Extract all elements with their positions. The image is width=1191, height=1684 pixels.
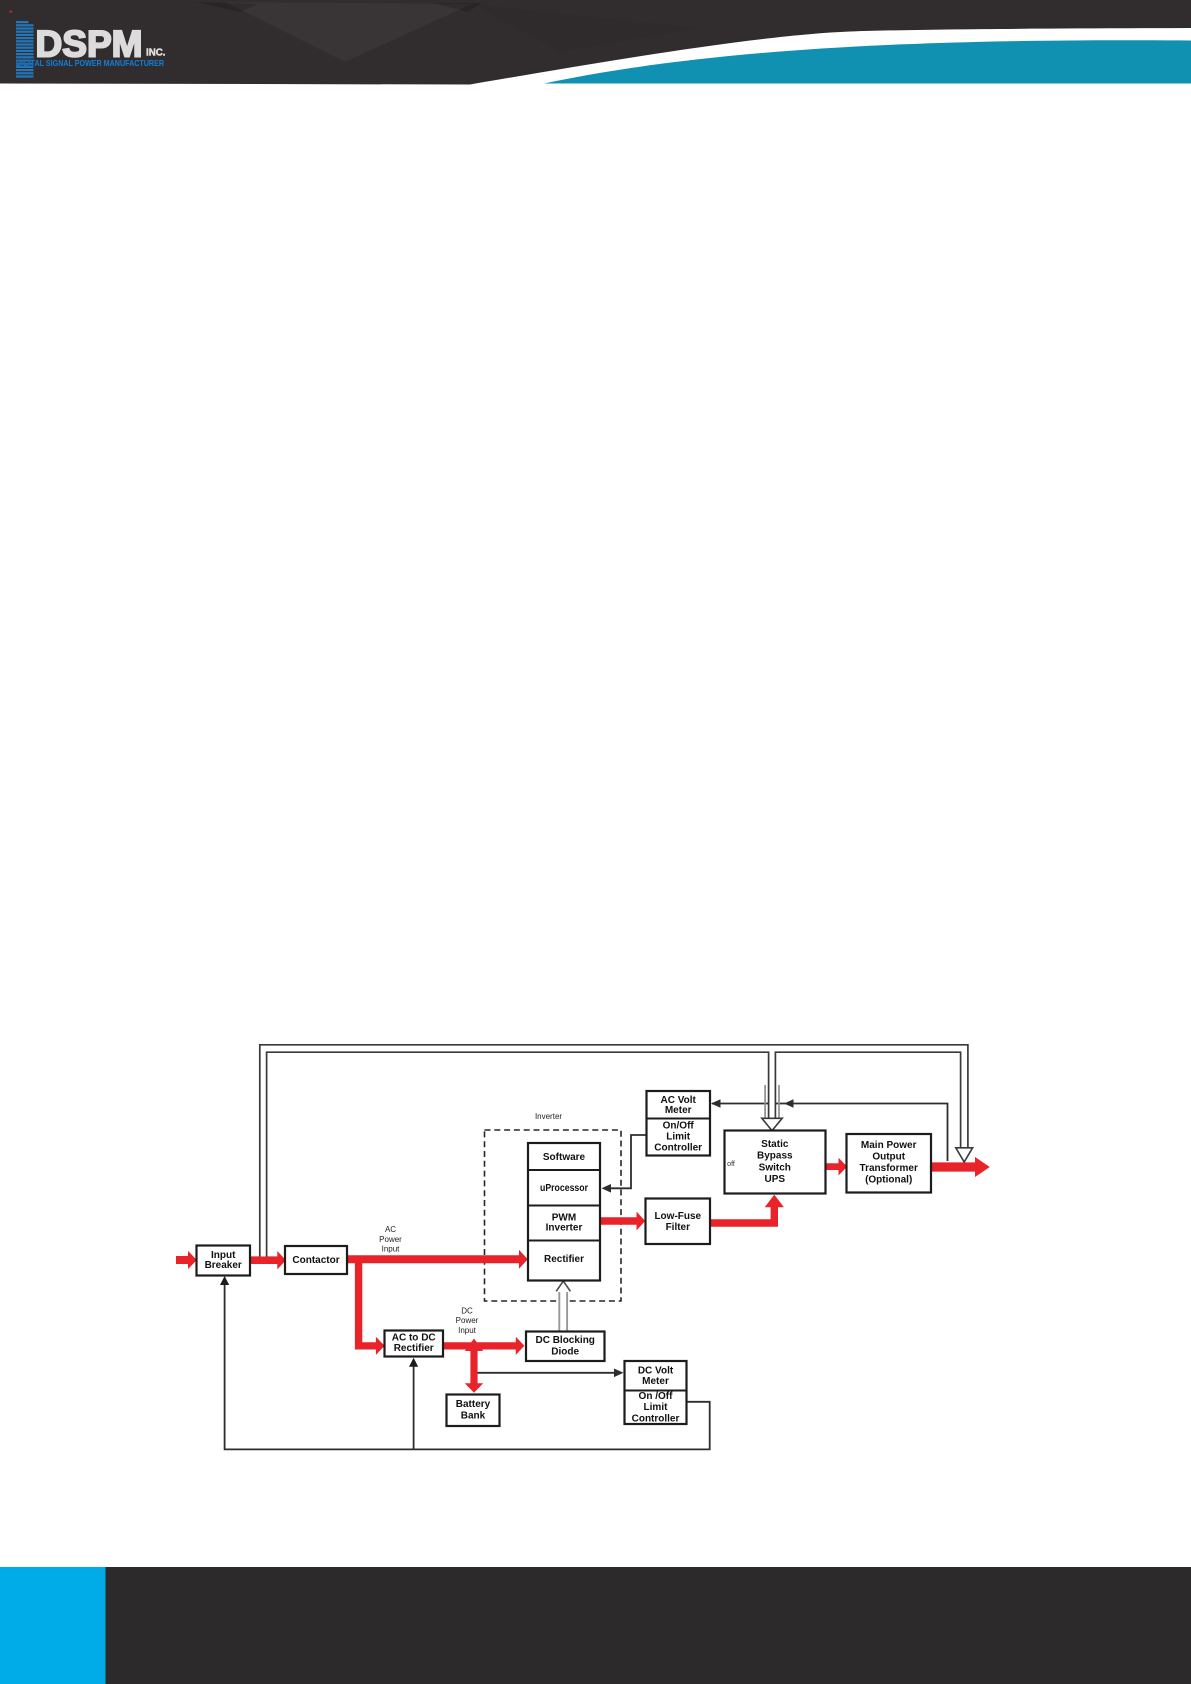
label DC Power Input — [456, 1307, 479, 1335]
svg-text:On /Off: On /Off — [639, 1391, 674, 1402]
svg-text:Meter: Meter — [642, 1376, 669, 1387]
svg-text:Power: Power — [379, 1235, 402, 1244]
svg-text:INC.: INC. — [146, 47, 166, 59]
red battery double arrow — [465, 1339, 483, 1393]
svg-text:DC Volt: DC Volt — [638, 1365, 674, 1376]
bypass band inner edge right — [775, 1052, 960, 1149]
svg-text:Transformer: Transformer — [860, 1163, 918, 1174]
red output arrow — [931, 1157, 990, 1177]
box Input Breaker — [197, 1246, 251, 1276]
svg-text:Breaker: Breaker — [205, 1260, 242, 1271]
svg-text:Software: Software — [543, 1152, 586, 1163]
box Static Bypass Switch UPS — [725, 1131, 826, 1194]
svg-text:Bank: Bank — [461, 1410, 486, 1421]
svg-text:Diode: Diode — [551, 1346, 579, 1357]
svg-text:off: off — [727, 1161, 735, 1168]
svg-text:Output: Output — [872, 1152, 905, 1163]
bypass band outer edge — [260, 1045, 968, 1257]
svg-text:Rectifier: Rectifier — [544, 1254, 584, 1265]
svg-text:On/Off: On/Off — [663, 1121, 695, 1132]
red AC main line to Rectifier — [347, 1250, 528, 1269]
svg-text:Static: Static — [761, 1139, 789, 1150]
footer blue square — [0, 1567, 106, 1684]
box Battery Bank — [447, 1395, 500, 1427]
svg-text:Filter: Filter — [666, 1222, 691, 1233]
box Main Power Output Transformer — [847, 1134, 932, 1193]
svg-text:Main Power: Main Power — [861, 1140, 917, 1151]
header blue swoosh — [544, 40, 1191, 83]
svg-text:Low-Fuse: Low-Fuse — [654, 1211, 701, 1222]
wire output sense to AC Volt Meter — [712, 1104, 948, 1162]
svg-text:(Optional): (Optional) — [865, 1174, 912, 1185]
svg-text:DIGITAL SIGNAL POWER MANUFACTU: DIGITAL SIGNAL POWER MANUFACTURER — [16, 59, 164, 68]
svg-text:Battery: Battery — [456, 1399, 491, 1410]
arrowhead up into Input Breaker — [220, 1276, 229, 1285]
box AC Volt Meter / On-Off Limit Controller — [647, 1091, 711, 1156]
svg-text:DC: DC — [461, 1307, 473, 1316]
bypass band inner edge left — [267, 1052, 769, 1256]
svg-text:Switch: Switch — [759, 1162, 791, 1173]
svg-text:Limit: Limit — [666, 1132, 691, 1143]
hollow arrow shaft edges — [559, 1292, 567, 1331]
svg-text:Meter: Meter — [665, 1105, 692, 1116]
red branch down to AC to DC Rectifier — [355, 1256, 385, 1355]
red path Low-Fuse Filter up into Static Bypass — [710, 1195, 784, 1227]
wire On/Off controller to uProcessor — [611, 1135, 647, 1188]
wire DC limit controller feedback loop — [225, 1284, 710, 1449]
svg-text:Power: Power — [456, 1316, 479, 1325]
arrowhead into AC Volt Meter — [711, 1099, 721, 1108]
box DC Blocking Diode — [526, 1332, 605, 1362]
svg-text:Controller: Controller — [654, 1143, 702, 1154]
hollow arrow diode to Rectifier : white core — [560, 1290, 566, 1331]
logo red speck — [10, 11, 13, 13]
svg-text:Bypass: Bypass — [757, 1151, 793, 1162]
red arrow Static Bypass to Main Transformer — [826, 1158, 848, 1176]
box DC Volt Meter / On-Off Limit Controller — [625, 1361, 687, 1424]
footer dark bar — [106, 1567, 1191, 1684]
svg-text:Rectifier: Rectifier — [394, 1343, 434, 1354]
box Low-Fuse Filter — [646, 1199, 711, 1245]
hollow arrowhead into Static Bypass — [762, 1118, 782, 1130]
red input arrow — [176, 1251, 197, 1269]
arrowhead into DC Volt Meter — [614, 1369, 624, 1378]
wire feedback branch to AC to DC Rectifier — [413, 1366, 415, 1449]
bypass hollow band interior — [260, 1045, 968, 1257]
label AC Power Input — [379, 1225, 402, 1253]
wire battery bus to DC Volt Meter — [477, 1372, 615, 1374]
bypass branch gray shaft — [765, 1085, 779, 1119]
hollow arrowhead into Rectifier — [556, 1281, 570, 1291]
box inverter stack — [528, 1143, 600, 1281]
svg-text:UPS: UPS — [765, 1174, 786, 1185]
svg-text:Contactor: Contactor — [292, 1255, 339, 1266]
inverter dashed enclosure — [485, 1130, 622, 1301]
svg-text:DC Blocking: DC Blocking — [535, 1335, 594, 1346]
red arrow breaker to contactor — [250, 1251, 286, 1269]
red arrow PWM to Low-Fuse Filter — [600, 1212, 645, 1231]
red arrow rectifier to DC Blocking Diode — [443, 1337, 524, 1355]
svg-text:Input: Input — [382, 1245, 401, 1254]
svg-text:Inverter: Inverter — [546, 1223, 583, 1234]
arrowhead into bypass band — [784, 1099, 794, 1108]
svg-text:Inverter: Inverter — [535, 1112, 562, 1121]
svg-text:Limit: Limit — [644, 1402, 669, 1413]
hollow arrowhead into output line — [956, 1148, 973, 1162]
svg-text:Controller: Controller — [632, 1413, 680, 1424]
box AC to DC Rectifier — [385, 1331, 444, 1357]
arrowhead up into AC to DC Rectifier — [409, 1358, 418, 1367]
svg-text:AC to DC: AC to DC — [392, 1332, 436, 1343]
arrowhead into uProcessor — [602, 1184, 612, 1193]
svg-text:AC: AC — [385, 1225, 396, 1234]
svg-text:uProcessor: uProcessor — [540, 1183, 588, 1194]
logo stripe bar — [16, 21, 34, 78]
box Contactor — [285, 1246, 347, 1274]
svg-text:Input: Input — [458, 1326, 477, 1335]
